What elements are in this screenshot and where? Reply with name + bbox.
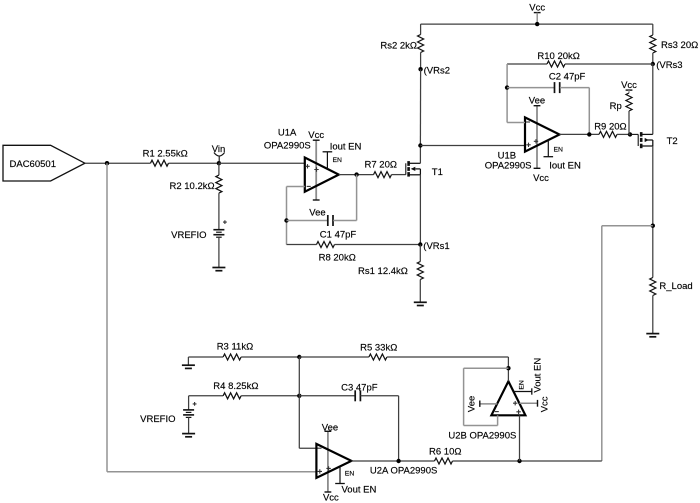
capacitor C3 47pF: [299, 383, 398, 402]
svg-text:EN: EN: [333, 157, 343, 164]
wire C1 to U1A output node: [356, 175, 358, 221]
wire Rs2 to VRs2: [420, 53, 422, 70]
wire battery to ground lower: [188, 417, 190, 433]
Vcc pin of U2A: [323, 492, 339, 503]
svg-text:R8 20kΩ: R8 20kΩ: [319, 253, 356, 264]
wire T1 source down to VRs1: [419, 175, 421, 245]
resistor Rp: [610, 90, 632, 112]
node U1A output feedback: [354, 172, 358, 176]
wire T1 drain up: [419, 146, 421, 164]
svg-text:Vee: Vee: [322, 422, 338, 433]
wire U1B inverting input: [507, 122, 525, 124]
ground below lower VREFIO: [182, 433, 195, 435]
wire T2 source down: [652, 146, 654, 278]
wire R10 down to C2 node: [506, 64, 508, 123]
svg-text:Rs3 20Ω: Rs3 20Ω: [661, 40, 698, 51]
svg-text:R1 2.55kΩ: R1 2.55kΩ: [143, 149, 188, 160]
svg-text:(VRs2: (VRs2: [424, 66, 450, 77]
wire C2 down to U1B output node: [588, 88, 590, 135]
svg-text:U2A OPA2990S: U2A OPA2990S: [370, 466, 437, 477]
node Vin: [212, 144, 226, 165]
node feedback C1 junction: [284, 218, 288, 222]
wire R3 node down to U2A inverting input: [299, 357, 316, 448]
node R3 R5 junction: [297, 355, 301, 359]
EN pin of U2A Vout EN: [335, 467, 376, 496]
wire C3 down to U2A output node: [398, 396, 400, 461]
ground below Rs1: [414, 301, 427, 303]
svg-text:Vcc: Vcc: [323, 493, 339, 503]
wire VRs2 down to T1 drain node: [419, 69, 421, 145]
svg-text:C2 47pF: C2 47pF: [549, 72, 586, 83]
svg-text:R4 8.25kΩ: R4 8.25kΩ: [213, 381, 258, 392]
wire R6 to U2B input node: [453, 460, 602, 462]
svg-text:C1 47pF: C1 47pF: [320, 230, 357, 241]
transistor T2 PMOS: [630, 132, 678, 148]
node VRs3: [651, 60, 683, 71]
ground below R_Load: [646, 333, 659, 335]
DAC60501 output tag: [3, 145, 85, 181]
svg-text:Vout EN: Vout EN: [533, 358, 544, 393]
wire junction to U1B noninverting input: [420, 145, 525, 147]
Vcc supply top: [529, 2, 545, 24]
svg-text:Vcc: Vcc: [529, 2, 545, 13]
svg-text:Vcc: Vcc: [308, 130, 324, 141]
svg-text:Vcc: Vcc: [533, 173, 549, 184]
svg-text:EN: EN: [554, 146, 564, 153]
wire R1 to Vin node: [169, 162, 219, 164]
svg-text:Rp: Rp: [610, 101, 622, 112]
node U1B output C2 junction: [587, 132, 591, 136]
resistor R5 33k: [299, 343, 508, 360]
ground at R3 input: [182, 357, 195, 368]
svg-text:EN: EN: [345, 470, 355, 477]
svg-text:Vee: Vee: [529, 96, 545, 107]
EN pin of U1A Iout EN: [323, 142, 362, 169]
node T1 drain / U1B input junction: [418, 143, 422, 147]
wire R5 down to U2B output node: [507, 357, 509, 368]
svg-text:T1: T1: [432, 167, 443, 178]
svg-text:Rs2 2kΩ: Rs2 2kΩ: [380, 41, 417, 52]
node U2A output C3 junction: [396, 459, 400, 463]
svg-text:R5 33kΩ: R5 33kΩ: [360, 343, 397, 354]
resistor R8 20k: [287, 242, 421, 264]
wire R_Load to ground: [652, 296, 654, 334]
resistor Rs1 12.4k: [358, 245, 423, 280]
EN pin of U1B Iout EN: [544, 140, 582, 171]
svg-text:R10 20kΩ: R10 20kΩ: [537, 51, 580, 62]
wire R7 to T1 gate: [392, 174, 406, 176]
Vee pin of U2A: [322, 422, 338, 433]
resistor R10 20k: [507, 51, 653, 67]
resistor R1 2.55k: [143, 149, 188, 167]
svg-text:OPA2990S: OPA2990S: [485, 160, 532, 171]
resistor R4 8.25k: [189, 381, 300, 399]
Vcc pin of U1A: [308, 130, 324, 141]
wire Vin to U1A noninverting input: [219, 162, 305, 164]
node U2B output: [506, 366, 510, 370]
wire node down left side: [107, 163, 316, 472]
wire VRs3 down to T2 drain: [652, 64, 654, 134]
battery VREFIO: [171, 220, 227, 241]
wire Rs3 to VRs3: [652, 53, 654, 64]
svg-text:OPA2990S: OPA2990S: [264, 140, 311, 151]
Vee pin of U1B: [529, 96, 545, 107]
op-amp U2B OPA2990S rotated: [448, 381, 525, 441]
svg-text:Vcc: Vcc: [540, 396, 551, 412]
wire U2A output: [351, 460, 434, 462]
svg-text:R3 11kΩ: R3 11kΩ: [217, 341, 254, 352]
capacitor C2 47pF: [507, 72, 589, 94]
capacitor C1 47pF: [287, 215, 357, 241]
Vee pin of U1A: [309, 200, 325, 219]
wire U2B feedback loop: [464, 368, 509, 425]
wire battery to ground: [218, 237, 220, 267]
svg-text:C3 47pF: C3 47pF: [341, 383, 378, 394]
resistor R9 20: [594, 121, 626, 137]
wire U1A inverting input feedback: [287, 187, 305, 245]
wire Rs1 to ground: [419, 280, 421, 303]
node Vcc rail: [535, 22, 539, 26]
resistor R7 20: [365, 160, 397, 178]
svg-text:Iout EN: Iout EN: [330, 142, 362, 153]
node at DAC output branch: [105, 161, 109, 165]
wire U1B output: [560, 133, 600, 135]
op-amp U2A OPA2990S: [316, 431, 437, 492]
transistor T1 NMOS: [406, 161, 443, 178]
wire DAC output to node: [85, 162, 151, 164]
resistor R3 11k: [188, 341, 299, 360]
svg-text:(VRs1: (VRs1: [423, 241, 449, 252]
wire U2B output stem: [507, 368, 509, 381]
Vee pin of U2B: [467, 396, 498, 412]
battery VREFIO lower: [140, 396, 196, 425]
Vcc pin of U1B: [533, 168, 549, 184]
resistor Rs2 2k: [380, 35, 423, 53]
op-amp U1A OPA2990S: [264, 128, 339, 200]
node R4 C3 junction: [297, 394, 301, 398]
svg-text:R9 20Ω: R9 20Ω: [594, 121, 626, 132]
svg-text:VREFIO: VREFIO: [171, 230, 206, 241]
Vcc supply for Rp: [621, 80, 637, 91]
node T2 gate Rp junction: [628, 132, 632, 136]
svg-text:R6 10Ω: R6 10Ω: [429, 447, 461, 458]
resistor R2 10.2k: [169, 163, 221, 193]
wire R2 to battery: [218, 193, 220, 230]
wire rail to Rs3: [652, 24, 654, 35]
svg-text:DAC60501: DAC60501: [10, 159, 56, 170]
wire U1A output: [339, 174, 374, 176]
wire top Vcc rail: [421, 23, 653, 25]
svg-text:Vee: Vee: [467, 396, 478, 412]
svg-text:U2B OPA2990S: U2B OPA2990S: [448, 431, 516, 442]
svg-text:Rs1 12.4kΩ: Rs1 12.4kΩ: [358, 266, 408, 277]
svg-text:U1A: U1A: [278, 128, 297, 139]
svg-text:R7 20Ω: R7 20Ω: [365, 160, 397, 171]
svg-text:Vcc: Vcc: [621, 80, 637, 91]
node VRs2: [418, 66, 450, 77]
svg-text:EN: EN: [519, 380, 526, 390]
svg-text:R_Load: R_Load: [659, 281, 692, 292]
svg-text:(VRs3: (VRs3: [656, 60, 682, 71]
wire U2B noninverting input stem: [519, 415, 521, 461]
wire feedback from source node to bottom rail: [602, 226, 653, 461]
resistor R6 10: [429, 447, 461, 464]
resistor R_Load: [650, 278, 693, 296]
node T2 source to load feedback: [651, 224, 655, 228]
wire rail to Rs2: [420, 24, 422, 34]
svg-text:VREFIO: VREFIO: [140, 414, 175, 425]
Vcc pin of U2B: [519, 396, 550, 412]
node C2 junction: [505, 85, 509, 89]
svg-text:R2 10.2kΩ: R2 10.2kΩ: [169, 181, 214, 192]
node VRs1: [418, 241, 450, 252]
ground below VREFIO: [212, 267, 225, 269]
svg-text:T2: T2: [667, 136, 678, 147]
EN pin of U2B Vout EN: [514, 358, 544, 395]
svg-text:Iout EN: Iout EN: [549, 160, 581, 171]
wire Rp to gate node: [628, 111, 630, 134]
svg-text:Vee: Vee: [309, 208, 325, 219]
node U2B noninverting junction: [517, 459, 521, 463]
op-amp U1B OPA2990S: [485, 106, 560, 172]
resistor Rs3 20: [650, 35, 698, 53]
svg-text:Vout EN: Vout EN: [342, 485, 377, 496]
wire R9 to gate node: [617, 133, 630, 135]
